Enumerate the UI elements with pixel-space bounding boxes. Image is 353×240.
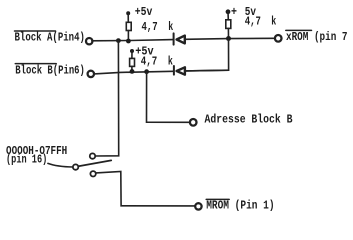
overline MROM bbox=[206, 198, 229, 200]
power +5v supply 3 dot bbox=[226, 9, 231, 14]
terminal Adresse Block B bbox=[190, 119, 197, 126]
junction V1 on Block A wire bbox=[116, 38, 121, 43]
terminal MROM (Pin 1) bbox=[195, 203, 201, 209]
svg-text:xROM (pin 7: xROM (pin 7 bbox=[286, 31, 348, 44]
svg-text:MROM (Pin 1): MROM (Pin 1) bbox=[206, 199, 274, 212]
node xROM label bbox=[286, 31, 348, 44]
switch blade bbox=[78, 160, 111, 166]
wire node X down and left to D2 bbox=[186, 39, 229, 71]
wire Block B row bbox=[94, 71, 173, 74]
wire diode D1 to node X bbox=[185, 38, 228, 41]
wire node X to xROM terminal bbox=[229, 37, 275, 39]
power +5v supply 2 label bbox=[135, 46, 153, 59]
diode D2 triangle bbox=[177, 67, 185, 74]
overline Block B bbox=[15, 63, 56, 65]
node Block A label bbox=[15, 32, 85, 45]
wire Block A row bbox=[92, 40, 173, 41]
power +5v supply 1 dot bbox=[126, 11, 130, 15]
value R2 4,7 k bbox=[141, 55, 173, 68]
power +5v supply 2 dot bbox=[130, 49, 134, 53]
svg-text:4,7: 4,7 bbox=[142, 21, 158, 34]
terminal xROM (pin 7) bbox=[275, 35, 282, 42]
svg-text:k: k bbox=[271, 16, 276, 29]
junction node X bbox=[226, 36, 231, 41]
svg-text:+: + bbox=[231, 6, 237, 19]
wire V2 vertical Block B to Adresse terminal bbox=[147, 72, 190, 123]
wire throw 2 to MROM terminal bbox=[96, 172, 195, 206]
terminal Block B (Pin6) bbox=[88, 71, 94, 77]
node 0000H-07FFH label bbox=[6, 145, 67, 167]
wire V1 vertical Block A to switch throw 1 bbox=[95, 41, 118, 156]
diode D1 cathode bar bbox=[173, 33, 175, 44]
value R3 4,7 k bbox=[245, 16, 277, 29]
node Block B label bbox=[15, 64, 85, 77]
node Adresse Block B label bbox=[205, 114, 293, 127]
wire pin16 to switch pole bbox=[48, 163, 73, 167]
wire supply1 to resistor R1 bbox=[127, 13, 129, 22]
diode D1 triangle bbox=[177, 36, 185, 44]
svg-text:4,7: 4,7 bbox=[141, 55, 157, 68]
junction V2 on Block B wire bbox=[144, 69, 149, 74]
svg-text:+5v: +5v bbox=[135, 6, 153, 19]
junction R1 on Block A wire bbox=[126, 39, 131, 44]
svg-text:Block A(Pin4): Block A(Pin4) bbox=[15, 32, 85, 45]
wire resistor R2 to Block B wire bbox=[131, 66, 133, 72]
power +5v supply 1 label bbox=[135, 6, 153, 19]
switch throw 1 circle bbox=[90, 153, 95, 158]
terminal Block A (Pin4) bbox=[86, 38, 92, 44]
power +5v supply 3 label bbox=[231, 6, 256, 19]
resistor R2 body bbox=[130, 58, 135, 66]
overline xROM bbox=[286, 29, 312, 31]
overline Block A bbox=[15, 30, 56, 32]
wire supply2 to resistor R2 bbox=[131, 51, 133, 58]
switch pole circle bbox=[73, 164, 78, 169]
svg-text:k: k bbox=[168, 21, 173, 34]
value R1 4,7 k bbox=[142, 21, 174, 34]
svg-text:(pin 16): (pin 16) bbox=[6, 154, 47, 167]
wire supply3 to resistor R3 bbox=[227, 12, 229, 20]
diode D2 cathode bar bbox=[173, 66, 175, 75]
svg-text:k: k bbox=[168, 55, 173, 68]
wire resistor R1 to Block A wire bbox=[127, 31, 129, 42]
wire diode D2 to right corner bbox=[186, 69, 229, 72]
svg-text:Block B(Pin6): Block B(Pin6) bbox=[15, 64, 85, 77]
svg-text:Adresse Block B: Adresse Block B bbox=[205, 114, 293, 127]
resistor R3 body bbox=[226, 20, 231, 29]
wire resistor R3 to node X bbox=[227, 28, 229, 38]
node MROM label bbox=[206, 199, 274, 212]
svg-text:4,7: 4,7 bbox=[245, 16, 261, 29]
switch throw 2 circle bbox=[90, 171, 95, 176]
resistor R1 body bbox=[126, 22, 131, 30]
junction R2 on Block B wire bbox=[130, 69, 135, 74]
